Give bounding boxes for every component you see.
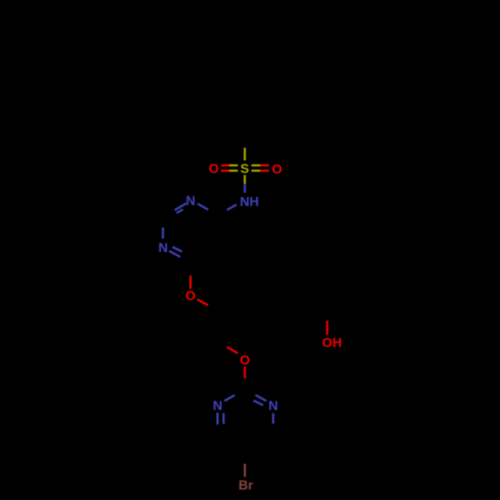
bond S=O left line2 (red half) [221, 170, 229, 172]
bond C4-O1 (O half) [189, 276, 191, 289]
bond N3p-C4p (N half) [272, 413, 274, 424]
bond C-OH (O half) [326, 321, 328, 335]
bond S=O left line1 (red half) [221, 164, 229, 166]
bond C-S (S half) [244, 148, 246, 161]
svg-text:O: O [272, 161, 282, 176]
bond C2p=N3p main (N half) [255, 395, 266, 401]
svg-text:N: N [186, 193, 196, 208]
bond S-N (S half) [244, 175, 246, 184]
bond N3=C4 inner (N half) [173, 247, 183, 252]
bond N1=C2 inner (N half) [177, 209, 183, 213]
svg-text:OH: OH [322, 335, 342, 350]
bond NH-C6 (N half) [227, 205, 237, 211]
svg-text:O: O [185, 288, 195, 303]
bond N1-C6 (N half) [198, 204, 209, 210]
bond S=O left line2 (S half) [229, 170, 237, 172]
bond N1p=C6p main (N half) [216, 413, 218, 425]
svg-text:S: S [240, 161, 249, 176]
bond C2p=N3p inner (N half) [253, 400, 263, 405]
svg-text:N: N [269, 398, 279, 413]
bond C2p-N1p (N half) [224, 395, 234, 401]
bond CH2b-O2 (O half) [227, 347, 238, 353]
bond S=O right line1 (S half) [251, 164, 260, 166]
bond S-N (N half) [244, 184, 246, 193]
svg-text:Br: Br [238, 477, 253, 492]
bond N1=C2 main (N half) [175, 203, 187, 210]
bond S=O left line1 (S half) [229, 164, 237, 166]
bond N1p=C6p inner (N half) [223, 413, 225, 424]
svg-text:N: N [213, 398, 223, 413]
bond N3=C4 main (N half) [169, 251, 180, 257]
svg-text:NH: NH [240, 194, 259, 209]
bond S=O right line2 (red half) [260, 170, 269, 172]
bond O1-CH2a (O half) [197, 299, 208, 305]
bond C5p-Br (Br half) [244, 464, 246, 477]
svg-text:O: O [209, 161, 219, 176]
bond S=O right line2 (S half) [251, 170, 260, 172]
bond S=O right line1 (red half) [260, 164, 269, 166]
svg-text:O: O [240, 352, 250, 367]
bond O2-C2p (O half) [244, 367, 246, 379]
svg-text:N: N [158, 240, 168, 255]
bond C2-N3 (N half) [162, 228, 164, 239]
